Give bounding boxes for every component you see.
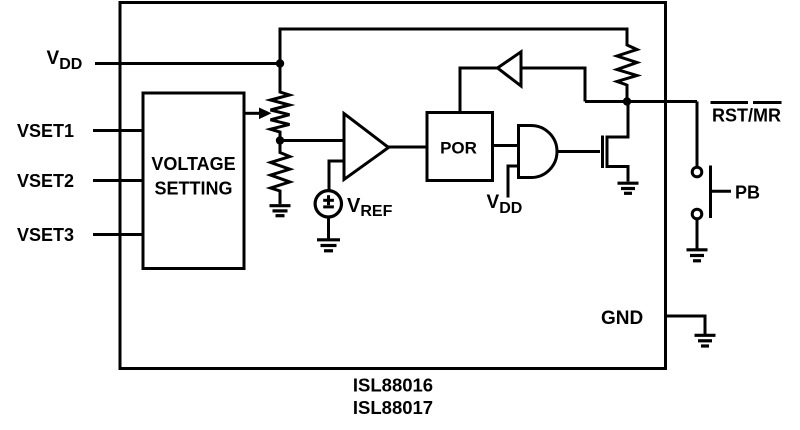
svg-text:ISL88016: ISL88016 (353, 375, 433, 396)
node RST junction (623, 97, 631, 105)
AND gate U5 (519, 126, 558, 178)
wire VSET1 (93, 129, 143, 132)
potentiometer wiper arrow (244, 112, 259, 115)
wire VDD rail (280, 29, 627, 64)
wire VREF to comparator (329, 161, 344, 192)
wire RST/MR output line (585, 100, 697, 103)
inverter U4 (498, 52, 522, 86)
svg-text:VSET3: VSET3 (17, 225, 74, 245)
pushbutton PB actuator (709, 166, 712, 219)
wire AND to MOSFET gate (557, 150, 600, 153)
voltage source VREF (315, 191, 341, 217)
transistor Q1 MOSFET (601, 136, 604, 169)
potentiometer RP (271, 64, 290, 141)
resistor R2 (271, 141, 290, 205)
wire VREF to ground (327, 216, 330, 239)
wire Q1 source (607, 167, 628, 182)
svg-text:VDD: VDD (47, 48, 83, 73)
wire comparator to POR (388, 146, 427, 149)
svg-text:SETTING: SETTING (154, 179, 232, 199)
wire POR to inverter (460, 68, 498, 113)
svg-text:VREF: VREF (347, 195, 393, 220)
wire PB to ground (696, 219, 699, 249)
wire RST node to pushbutton (696, 102, 699, 168)
wire Q1 drain (607, 102, 628, 138)
svg-text:VSET1: VSET1 (17, 121, 74, 141)
svg-text:VSET2: VSET2 (17, 171, 74, 191)
label RST/MR with overlines (711, 101, 749, 104)
ground Q1 source (618, 183, 639, 193)
node divider tap (276, 136, 284, 144)
op-amp U2 comparator (344, 114, 389, 180)
wire VSET2 (93, 179, 143, 182)
svg-text:ISL88017: ISL88017 (353, 397, 433, 418)
wire tap to comparator (280, 139, 344, 142)
svg-text:RST/MR: RST/MR (712, 105, 781, 125)
pushbutton PB contacts (692, 167, 702, 177)
svg-text:VOLTAGE: VOLTAGE (151, 154, 235, 174)
svg-text:VDD: VDD (487, 192, 523, 217)
svg-text:POR: POR (440, 139, 477, 158)
wire VDD input (95, 62, 280, 65)
block U3 POR (427, 113, 493, 181)
block U1 VOLTAGE SETTING (143, 93, 244, 269)
wire inverter input from RST node (522, 68, 586, 102)
wire VDD to AND gate (508, 166, 519, 198)
svg-text:PB: PB (735, 182, 760, 202)
resistor R1 pull-up (617, 45, 637, 85)
wire R1 to RST node (626, 84, 629, 102)
svg-text:GND: GND (601, 308, 643, 329)
ground PB (687, 250, 708, 261)
ground divider (270, 206, 291, 216)
wire POR to AND gate (493, 144, 519, 147)
ground GND pin (695, 335, 716, 346)
wire VSET3 (93, 233, 143, 236)
wire GND pin (666, 316, 706, 334)
IC boundary box (120, 3, 666, 369)
ground VREF (317, 240, 340, 251)
node VDD junction (276, 59, 284, 67)
